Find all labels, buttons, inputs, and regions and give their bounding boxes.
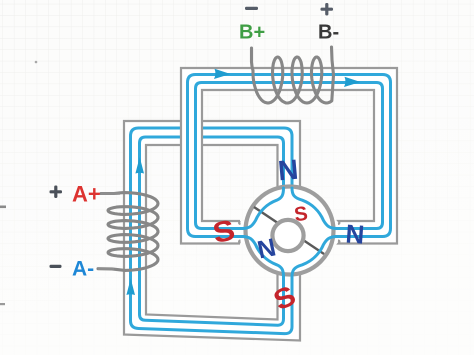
coil B loop outer gray wire outline [181, 68, 397, 244]
svg-text:A+: A+ [72, 182, 101, 207]
inductor coil B (top, gray) [252, 47, 334, 103]
rotor diagonal axis line [254, 207, 324, 254]
current arrow right (B loop top, right) [344, 77, 361, 87]
current arrow up (A loop left side, lower) [126, 279, 135, 296]
wire A blue outer line [131, 128, 293, 334]
rotor inner circle [272, 220, 303, 251]
coil A loop inner gray wire outline [146, 145, 281, 320]
wire B blue inner line [196, 83, 383, 229]
plus sign above B- [321, 3, 334, 16]
svg-text:A-: A- [72, 258, 94, 281]
svg-text:N: N [277, 154, 300, 187]
stray pen mark left edge upper [0, 206, 6, 209]
coil A loop outer gray wire outline [124, 121, 300, 341]
svg-text:N: N [345, 218, 366, 249]
stator outer ring [246, 187, 334, 275]
minus sign above B+ [245, 7, 258, 10]
terminal lead A- [98, 268, 114, 270]
stator winding NE blue arc [292, 188, 337, 229]
current arrow right (B loop top, left) [214, 69, 231, 79]
stray pen mark left edge lower [0, 303, 5, 305]
coil A loop track (white fill) [124, 121, 300, 341]
coil B loop inner gray wire outline [202, 90, 374, 224]
coil B loop track (white fill) [181, 68, 397, 244]
plus sign before A+ [50, 186, 63, 199]
terminal lead A+ [101, 192, 120, 194]
stray pen speck [35, 61, 38, 64]
current arrow up (A loop left side, upper) [135, 157, 144, 174]
inductor coil A (left, gray) [98, 193, 158, 271]
stator winding SW blue arc [242, 237, 284, 278]
stator winding SE blue arc [292, 237, 337, 278]
wire B blue outer line [188, 75, 391, 237]
stator winding NW blue arc [242, 188, 284, 229]
svg-text:B-: B- [318, 22, 339, 44]
minus sign before A- [50, 265, 62, 268]
svg-text:B+: B+ [239, 22, 265, 44]
wire A blue inner line [140, 137, 284, 325]
